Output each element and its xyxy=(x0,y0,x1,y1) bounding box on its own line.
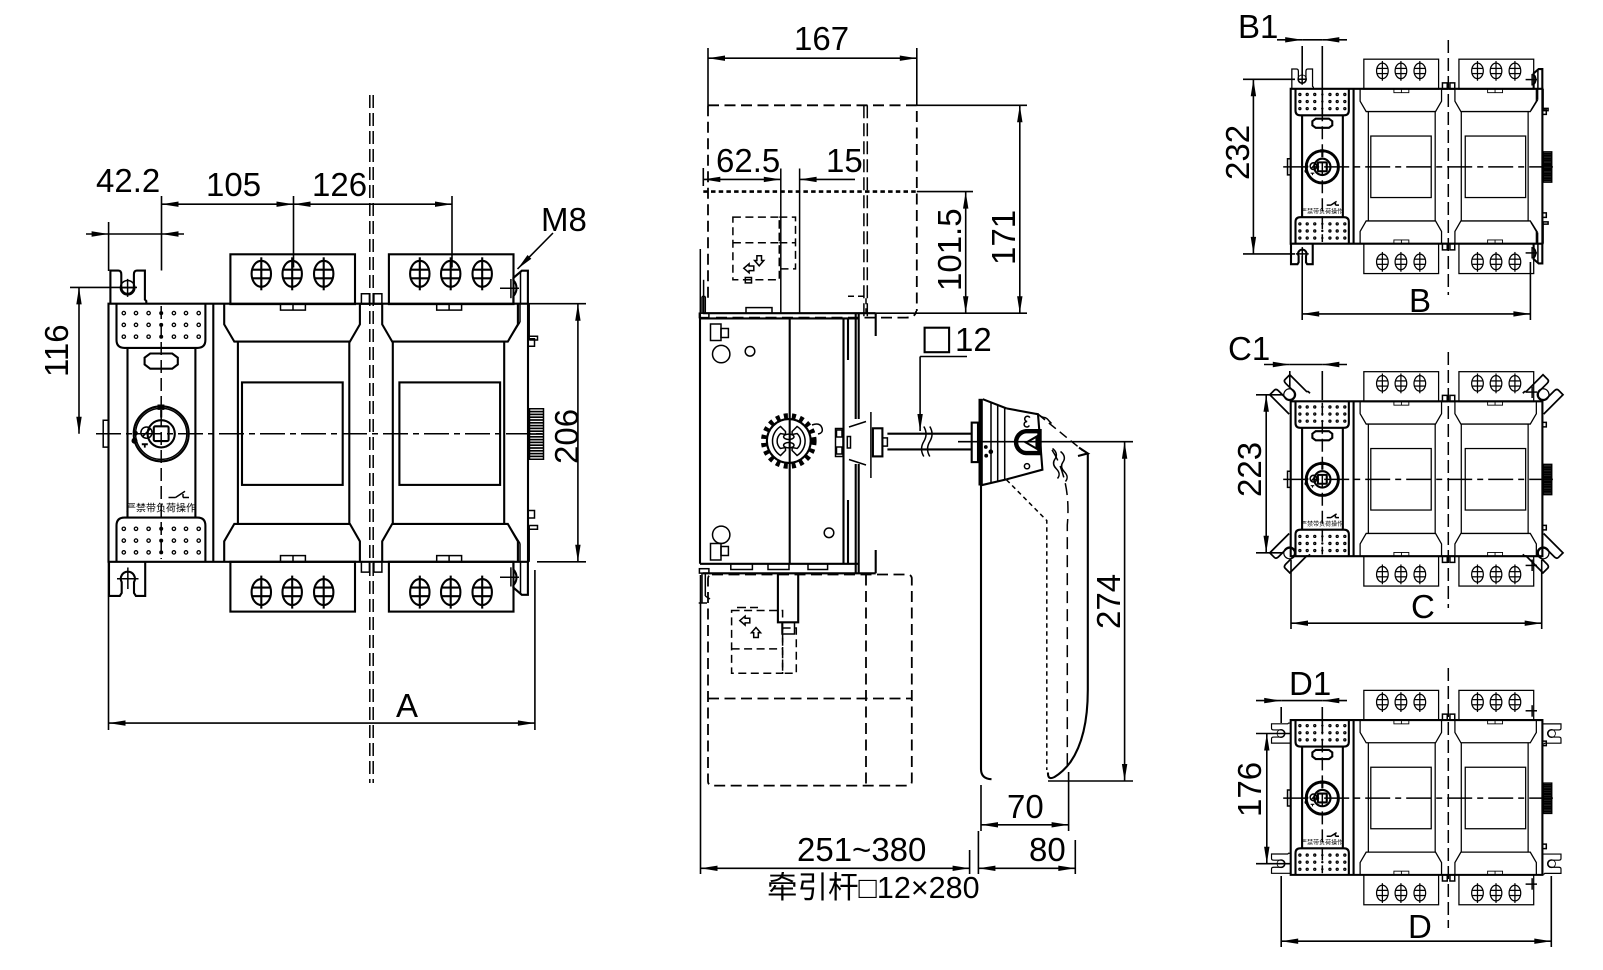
62.5 / 15 extension verticals xyxy=(780,169,782,314)
svg-text:D1: D1 xyxy=(1289,665,1331,702)
svg-text:B1: B1 xyxy=(1238,8,1278,45)
dimension 223 xyxy=(1256,395,1283,553)
handle grip xyxy=(1037,414,1052,424)
svg-text:D: D xyxy=(1408,908,1432,945)
dimension 80 xyxy=(978,831,1075,874)
svg-text:167: 167 xyxy=(794,20,849,57)
svg-text:105: 105 xyxy=(206,166,261,203)
controller dashed box upper xyxy=(733,217,796,280)
svg-text:176: 176 xyxy=(1231,762,1268,817)
vertical section centerline (double dashed) xyxy=(369,95,371,783)
dimension D xyxy=(1281,876,1551,947)
svg-text:101.5: 101.5 xyxy=(931,208,968,291)
dimension 70 xyxy=(981,772,1069,831)
top fastener bolt xyxy=(711,324,722,341)
hidden double-dash vertical xyxy=(863,105,865,317)
rotary drive gear knob xyxy=(767,419,811,463)
svg-text:223: 223 xyxy=(1231,442,1268,497)
svg-text:116: 116 xyxy=(38,324,75,377)
dimension 167 xyxy=(708,48,917,105)
view B device xyxy=(1283,59,1553,273)
svg-text:171: 171 xyxy=(985,210,1022,265)
handle face plate xyxy=(1006,408,1042,479)
svg-text:15: 15 xyxy=(826,142,863,179)
svg-text:42.2: 42.2 xyxy=(96,162,160,199)
dimension C xyxy=(1291,560,1542,629)
dimension 126 xyxy=(294,196,453,268)
front view device xyxy=(96,254,546,611)
dimension 232 xyxy=(1243,79,1295,254)
dimension 171 xyxy=(876,105,1027,313)
svg-text:C1: C1 xyxy=(1228,330,1270,367)
svg-text:A: A xyxy=(396,687,418,724)
svg-text:80: 80 xyxy=(1029,831,1066,868)
dimension A xyxy=(109,563,535,730)
svg-text:206: 206 xyxy=(548,409,585,464)
controller dashed box lower xyxy=(732,611,797,674)
shaft clamp xyxy=(836,429,844,457)
dimension 105 xyxy=(162,196,294,268)
dimension 206 xyxy=(529,304,586,562)
side body main outline xyxy=(700,313,876,573)
center mechanism column below body xyxy=(778,573,798,622)
dimension 62.5 xyxy=(703,168,781,186)
dimension 101.5 xyxy=(917,192,973,314)
square operating shaft with bolt xyxy=(870,412,872,478)
dimension 176 xyxy=(1256,734,1290,864)
diagonal corner brackets xyxy=(1270,374,1310,414)
left mounting plate stubs xyxy=(699,249,710,603)
svg-text:牵引杆□12×280: 牵引杆□12×280 xyxy=(767,871,980,905)
view D device xyxy=(1283,690,1553,904)
svg-text:C: C xyxy=(1411,588,1435,625)
handle coupling disc xyxy=(972,423,978,463)
upper dashed enclosure box xyxy=(708,105,917,317)
svg-text:232: 232 xyxy=(1219,125,1256,180)
svg-text:251~380: 251~380 xyxy=(797,831,926,868)
view C device xyxy=(1283,372,1553,586)
svg-text:12: 12 xyxy=(955,321,992,358)
dimension D1 xyxy=(1256,701,1347,732)
dimension C1 xyxy=(1264,365,1347,401)
dimension 274 xyxy=(958,442,1133,781)
dimension B1 xyxy=(1277,40,1347,115)
fine dashed rail line xyxy=(703,190,917,193)
bottom fastener bolt xyxy=(711,544,722,561)
handle bell xyxy=(979,399,983,486)
side clip brackets xyxy=(1272,723,1291,743)
lower dashed box (breaker hidden) xyxy=(708,575,912,786)
bottom tabs xyxy=(731,564,753,570)
dimension 251~380 xyxy=(701,575,970,874)
label square 12 xyxy=(925,328,950,353)
svg-text:70: 70 xyxy=(1007,788,1044,825)
dimension 42.2 xyxy=(86,196,184,271)
svg-text:62.5: 62.5 xyxy=(716,142,780,179)
view D centerline xyxy=(1447,668,1449,928)
view B centerline xyxy=(1447,40,1449,295)
svg-text:274: 274 xyxy=(1090,574,1127,629)
svg-text:126: 126 xyxy=(312,166,367,203)
arrow icons upper xyxy=(755,256,764,266)
dimension 15 xyxy=(800,178,855,180)
dimension 116 xyxy=(70,287,137,433)
dimension B xyxy=(1302,256,1530,320)
top cover tabs xyxy=(746,308,772,314)
svg-text:B: B xyxy=(1409,282,1431,319)
svg-text:M8: M8 xyxy=(541,201,587,238)
view C centerline xyxy=(1447,352,1449,608)
